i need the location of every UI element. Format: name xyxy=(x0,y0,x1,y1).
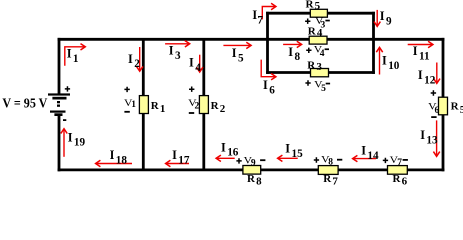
svg-text:R1: R1 xyxy=(151,100,166,115)
wire left bus xyxy=(266,12,269,74)
svg-text:I11: I11 xyxy=(413,44,430,62)
svg-text:I2: I2 xyxy=(128,52,140,70)
current arrow I16 xyxy=(216,155,235,161)
svg-text:I16: I16 xyxy=(221,140,239,158)
svg-text:R8: R8 xyxy=(247,173,262,186)
svg-text:I19: I19 xyxy=(68,130,86,148)
resistor R8 xyxy=(243,166,261,175)
current arrow I3 xyxy=(165,41,190,47)
label +V7- xyxy=(383,155,408,168)
resistor R7 xyxy=(318,166,338,175)
svg-text:I6: I6 xyxy=(263,78,275,96)
svg-text:I12: I12 xyxy=(418,68,436,86)
wire R1 branch lower xyxy=(142,113,145,170)
wire left lower xyxy=(58,116,61,172)
svg-text:R6: R6 xyxy=(393,173,408,186)
svg-text:R7: R7 xyxy=(323,173,338,186)
resistor R2 xyxy=(199,96,208,114)
label +V8- xyxy=(314,154,343,167)
svg-text:6: 6 xyxy=(435,106,440,116)
resistor R5 right xyxy=(439,97,448,115)
svg-text:I13: I13 xyxy=(420,128,438,146)
current arrow I9 xyxy=(374,10,380,27)
svg-text:I10: I10 xyxy=(382,53,400,71)
wire R2 branch upper xyxy=(202,40,205,97)
svg-text:I15: I15 xyxy=(285,142,303,160)
wire top xyxy=(58,38,445,41)
current arrow I14 xyxy=(353,155,376,161)
current arrow I8 xyxy=(283,41,302,47)
current arrow I5 xyxy=(223,42,251,48)
current arrow I12 xyxy=(434,63,440,84)
wire R1 branch upper xyxy=(142,40,145,97)
label +V4- xyxy=(306,45,329,59)
resistor R4 xyxy=(309,36,327,44)
resistor R6 xyxy=(388,166,408,175)
current arrow I2 xyxy=(137,47,143,71)
label +V6- xyxy=(428,90,439,118)
svg-text:I8: I8 xyxy=(288,45,300,63)
current arrow I13 xyxy=(433,120,439,156)
wire R3 row xyxy=(266,71,375,74)
current arrow I6 xyxy=(261,60,276,80)
resistor R3 xyxy=(311,69,329,77)
svg-text:2: 2 xyxy=(195,102,200,112)
svg-text:I3: I3 xyxy=(169,44,181,62)
current arrow I4 xyxy=(197,55,203,72)
wire left upper xyxy=(58,38,61,94)
current arrow I18 xyxy=(96,160,132,166)
svg-text:I1: I1 xyxy=(67,46,79,64)
svg-text:I9: I9 xyxy=(380,9,392,27)
svg-text:R4: R4 xyxy=(308,26,323,40)
wire right bus xyxy=(372,12,375,74)
wire R5 row xyxy=(266,12,375,15)
label +V2- xyxy=(188,87,199,114)
current arrow I15 xyxy=(278,155,298,161)
svg-text:R3: R3 xyxy=(307,60,322,74)
svg-text:9: 9 xyxy=(251,159,256,169)
svg-text:I14: I14 xyxy=(361,144,379,162)
current arrow I17 xyxy=(166,160,189,166)
resistor R1 xyxy=(139,96,148,114)
svg-text:1: 1 xyxy=(131,100,136,110)
wire bottom xyxy=(58,168,445,171)
svg-text:R5: R5 xyxy=(306,0,321,12)
svg-text:R2: R2 xyxy=(211,100,226,115)
label +V3- xyxy=(305,16,330,30)
svg-text:R5: R5 xyxy=(451,101,463,116)
svg-text:7: 7 xyxy=(397,158,402,168)
svg-text:8: 8 xyxy=(328,158,333,168)
svg-text:4: 4 xyxy=(320,49,325,59)
label +V9- xyxy=(236,155,265,168)
battery V source xyxy=(48,86,70,121)
wire right lower xyxy=(442,114,445,171)
current arrow I11 xyxy=(408,41,433,47)
current arrow I10 xyxy=(376,47,382,74)
svg-text:5: 5 xyxy=(321,84,326,94)
wire right upper xyxy=(442,38,445,98)
label +V1- xyxy=(124,87,136,113)
label +V5- xyxy=(305,79,330,94)
current arrow I1 xyxy=(65,44,86,66)
resistor R5 top xyxy=(310,9,327,17)
current arrow I7 xyxy=(262,3,276,19)
current arrow I19 xyxy=(61,129,67,157)
svg-text:V = 95 V: V = 95 V xyxy=(2,96,47,111)
svg-text:I5: I5 xyxy=(232,46,244,64)
wire R2 branch lower xyxy=(202,113,205,170)
